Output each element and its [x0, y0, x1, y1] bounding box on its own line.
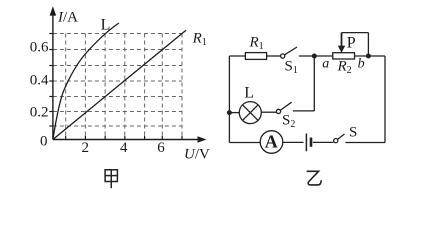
svg-text:2: 2: [81, 140, 89, 156]
svg-text:b: b: [358, 56, 365, 71]
svg-text:I/A: I/A: [57, 10, 78, 26]
svg-text:0: 0: [40, 133, 48, 149]
svg-text:a: a: [322, 56, 329, 71]
svg-text:0.6: 0.6: [30, 40, 49, 56]
svg-text:L: L: [244, 85, 254, 102]
svg-text:U/V: U/V: [184, 147, 210, 163]
svg-text:S: S: [349, 124, 357, 140]
svg-text:P: P: [347, 34, 356, 51]
svg-text:0.2: 0.2: [30, 104, 49, 120]
svg-text:0.4: 0.4: [30, 73, 49, 89]
svg-text:4: 4: [120, 140, 128, 156]
svg-text:6: 6: [157, 140, 165, 156]
svg-text:L: L: [101, 17, 111, 34]
svg-text:A: A: [265, 132, 278, 152]
